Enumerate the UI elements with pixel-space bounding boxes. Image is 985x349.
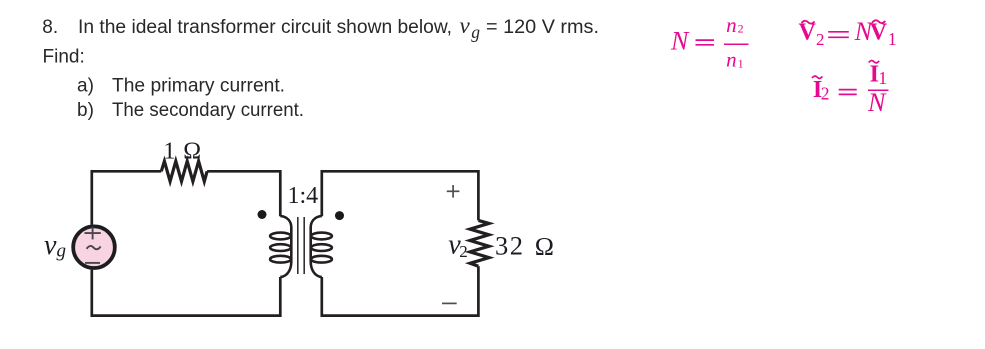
svg-text:Ω: Ω [183,139,201,165]
svg-text:n: n [726,13,737,37]
svg-text:8.: 8. [42,17,58,38]
svg-text:N: N [670,27,690,56]
svg-text:32: 32 [495,231,525,261]
svg-text:2: 2 [738,22,744,36]
svg-text:Ω: Ω [535,232,554,261]
svg-text:a): a) [77,75,94,96]
svg-text:v: v [44,230,57,261]
svg-text:2: 2 [459,242,468,261]
svg-text:1: 1 [878,68,887,88]
svg-text:The secondary current.: The secondary current. [112,100,304,121]
svg-text:2: 2 [816,30,825,49]
svg-text:N: N [867,88,887,117]
svg-text:g: g [57,241,67,262]
svg-text:= 120 V rms.: = 120 V rms. [486,17,599,38]
svg-text:V: V [870,20,888,46]
svg-text:1: 1 [888,29,897,49]
svg-text:The primary current.: The primary current. [112,75,285,96]
svg-text:1:4: 1:4 [288,183,319,209]
svg-text:g: g [471,22,480,42]
svg-text:2: 2 [821,84,830,104]
svg-text:V: V [799,20,817,46]
svg-text:v: v [460,13,471,38]
svg-text:In the ideal transformer circu: In the ideal transformer circuit shown b… [78,17,452,38]
svg-text:n: n [726,47,737,71]
svg-text:1: 1 [738,57,744,71]
svg-text:Find:: Find: [43,46,85,67]
svg-text:1: 1 [163,139,175,165]
svg-text:b): b) [77,100,94,121]
